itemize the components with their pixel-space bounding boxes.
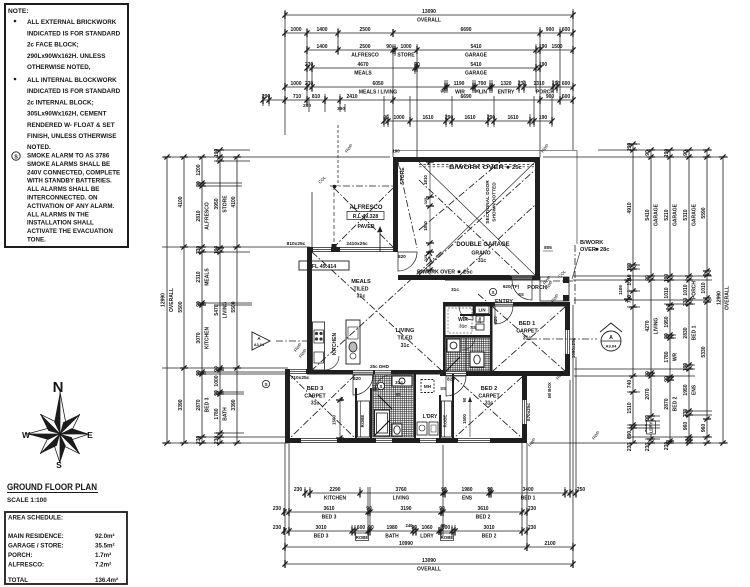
svg-text:2c INTERNAL BLOCK;: 2c INTERNAL BLOCK;	[27, 99, 94, 106]
wall: garage bottom / entry	[398, 275, 510, 280]
svg-text:B/WORK OVER: B/WORK OVER	[449, 165, 505, 171]
door arc: entry front door	[512, 280, 532, 300]
svg-text:MEALS / LIVING: MEALS / LIVING	[359, 90, 397, 96]
svg-text:B/WORK: B/WORK	[580, 240, 603, 246]
svg-text:230: 230	[627, 443, 633, 452]
svg-text:A: A	[609, 335, 613, 341]
wall: garage right (east)	[535, 157, 540, 280]
svg-text:S: S	[491, 290, 494, 295]
svg-text:ALFRESCO:: ALFRESCO:	[8, 562, 44, 569]
svg-text:600: 600	[357, 525, 366, 531]
interior wall: living | wir/ens column	[443, 302, 446, 374]
svg-text:OTHERWISE NOTED,: OTHERWISE NOTED,	[27, 64, 91, 71]
MH access box	[421, 380, 434, 393]
note paragraph 2 bullet	[14, 78, 17, 81]
porch slab	[540, 277, 569, 301]
svg-text:SMOKE ALARM TO AS 3786: SMOKE ALARM TO AS 3786	[27, 153, 110, 160]
right dimension column R5	[706, 150, 708, 443]
svg-text:810x25c: 810x25c	[287, 241, 306, 247]
interior wall: kitchen zone | bed3 bath band with doors	[307, 370, 353, 375]
svg-text:A3.04: A3.04	[606, 344, 617, 349]
svg-text:2410x25c: 2410x25c	[346, 241, 368, 247]
svg-text:90: 90	[683, 150, 689, 156]
alfresco dashed boundary	[333, 186, 335, 247]
right dimension column R2	[650, 150, 652, 443]
svg-text:ALL ALARMS SHALL BE: ALL ALARMS SHALL BE	[27, 186, 99, 193]
svg-text:190: 190	[392, 149, 400, 154]
svg-text:4670: 4670	[357, 62, 368, 68]
svg-text:ROBE: ROBE	[443, 415, 448, 428]
left dimension column L4	[219, 150, 221, 443]
svg-text:BED 2: BED 2	[476, 515, 491, 521]
svg-text:BED 2: BED 2	[672, 396, 678, 411]
svg-text:MEALS: MEALS	[351, 279, 371, 285]
svg-text:1190: 1190	[454, 81, 465, 87]
interior wall: wir | bed1	[490, 306, 493, 371]
svg-text:12990: 12990	[161, 293, 167, 307]
wall: house west lower	[285, 369, 290, 443]
svg-text:90: 90	[196, 301, 202, 307]
svg-text:NOTE:: NOTE:	[8, 8, 29, 15]
diagonals: garage X	[419, 162, 535, 275]
svg-text:31c: 31c	[395, 380, 403, 386]
svg-text:ENTRY: ENTRY	[495, 299, 513, 305]
svg-text:KITCHEN: KITCHEN	[204, 327, 210, 350]
interior wall: robe | bath	[370, 388, 372, 438]
svg-text:820: 820	[398, 254, 406, 259]
svg-text:25c: 25c	[478, 317, 482, 323]
svg-text:PAVED: PAVED	[357, 224, 374, 230]
svg-text:3010: 3010	[483, 525, 494, 531]
door arc: ens	[462, 337, 475, 350]
svg-text:1500: 1500	[462, 414, 467, 424]
svg-text:3760: 3760	[395, 487, 406, 493]
svg-text:25c DHD: 25c DHD	[370, 364, 390, 369]
bottom dimension row B2	[284, 511, 527, 513]
bottom dimension row B5: 13090 OVERALL	[285, 563, 573, 565]
diagonals: bed1	[493, 307, 565, 371]
left block extension lines	[162, 156, 390, 158]
ensuite tiled floor	[446, 338, 490, 371]
bath tiled floor	[373, 375, 414, 437]
svg-text:FINISH, UNLESS OTHERWISE: FINISH, UNLESS OTHERWISE	[27, 133, 116, 140]
left dimension column L2	[183, 157, 185, 443]
smoke alarm symbol	[377, 382, 384, 389]
svg-text:13090: 13090	[422, 558, 436, 564]
svg-text:ROBE: ROBE	[360, 415, 365, 428]
wall: bed1 north / hall south	[443, 302, 495, 307]
diagonals: alfresco	[334, 188, 393, 247]
interior wall: bed3 | robe/bath	[355, 388, 357, 438]
svg-text:1400: 1400	[316, 44, 327, 50]
wall: entry front (porch) with door 920	[445, 276, 512, 281]
svg-text:CARPET: CARPET	[478, 394, 500, 400]
svg-text:4100: 4100	[178, 196, 184, 207]
svg-text:6690: 6690	[460, 94, 471, 100]
door arc: bed2	[446, 376, 466, 396]
door arc: wir	[459, 306, 473, 320]
svg-text:31c: 31c	[478, 258, 487, 264]
svg-text:N: N	[53, 379, 64, 396]
svg-text:90: 90	[487, 487, 493, 493]
svg-text:5330: 5330	[701, 346, 707, 357]
svg-text:90: 90	[339, 396, 344, 401]
svg-text:230: 230	[528, 506, 537, 512]
svg-text:2870: 2870	[196, 399, 202, 410]
svg-text:230: 230	[528, 525, 537, 531]
smoke alarm symbol	[262, 380, 269, 387]
svg-text:SS: SS	[395, 392, 401, 397]
svg-text:31c: 31c	[357, 294, 366, 300]
svg-text:230: 230	[273, 525, 282, 531]
svg-text:1980: 1980	[386, 525, 397, 531]
svg-text:6050: 6050	[372, 81, 383, 87]
svg-text:OVERALL: OVERALL	[417, 18, 441, 24]
svg-text:S: S	[379, 384, 382, 389]
svg-text:690: 690	[627, 431, 633, 440]
svg-text:31c: 31c	[401, 343, 410, 349]
svg-text:2070: 2070	[645, 388, 651, 399]
svg-text:STORE: STORE	[222, 195, 228, 213]
svg-text:INTERCONNECTED. ON: INTERCONNECTED. ON	[27, 195, 98, 202]
svg-text:WIR: WIR	[458, 317, 468, 323]
area schedule box	[5, 512, 127, 584]
svg-text:TILED: TILED	[354, 287, 369, 293]
svg-text:BATH: BATH	[222, 407, 228, 421]
wall: house west upper	[307, 247, 312, 374]
bath fixtures	[375, 410, 390, 436]
svg-text:KITCHEN: KITCHEN	[332, 333, 338, 356]
svg-text:90: 90	[439, 506, 445, 512]
svg-text:1950: 1950	[683, 384, 689, 395]
svg-text:90: 90	[645, 150, 651, 156]
svg-text:OVERALL: OVERALL	[169, 288, 175, 312]
svg-text:90: 90	[368, 525, 374, 531]
bottom dimension row B4	[285, 546, 573, 548]
entry step chevron	[426, 251, 432, 262]
svg-text:SS: SS	[372, 387, 378, 392]
svg-text:BED 1: BED 1	[521, 496, 536, 502]
left dimension column L1: 12990 OVERALL	[166, 157, 168, 443]
svg-text:GRANO: GRANO	[471, 251, 490, 257]
svg-text:25c: 25c	[512, 165, 522, 171]
svg-text:1610: 1610	[422, 115, 433, 121]
svg-text:31c: 31c	[485, 401, 494, 407]
svg-text:230: 230	[645, 443, 651, 452]
svg-text:3070: 3070	[196, 332, 202, 343]
svg-text:3010: 3010	[315, 525, 326, 531]
svg-text:TILED: TILED	[398, 336, 413, 342]
svg-text:E: E	[87, 430, 93, 440]
svg-text:5500: 5500	[178, 301, 184, 312]
svg-text:SCALE 1:100: SCALE 1:100	[7, 497, 47, 504]
svg-text:90: 90	[441, 487, 447, 493]
top dimension row 2	[285, 32, 573, 34]
top dimension row 3	[307, 49, 573, 51]
svg-text:MEALS: MEALS	[204, 268, 210, 286]
svg-text:3190: 3190	[400, 506, 411, 512]
smoke alarm symbol	[489, 288, 496, 295]
svg-text:SS: SS	[470, 325, 476, 330]
wir shelving	[448, 308, 472, 333]
svg-text:230: 230	[273, 506, 282, 512]
bed3 interior dim	[339, 398, 341, 440]
svg-text:230: 230	[683, 409, 689, 418]
svg-text:TOTAL: TOTAL	[8, 577, 28, 584]
svg-text:R.L 49.328: R.L 49.328	[353, 214, 379, 220]
svg-text:INDICATED IS FOR STANDARD: INDICATED IS FOR STANDARD	[27, 30, 121, 37]
eave gutter lines	[393, 150, 577, 152]
svg-text:250: 250	[577, 487, 586, 493]
svg-text:710x25c: 710x25c	[291, 375, 310, 381]
svg-text:WITH STANDBY BATTERIES.: WITH STANDBY BATTERIES.	[27, 178, 112, 185]
eave dash-dot at porch	[540, 280, 575, 282]
svg-text:28c: 28c	[600, 247, 609, 253]
diagonals: store	[398, 162, 417, 248]
svg-text:3610: 3610	[477, 506, 488, 512]
interior wall: robe2 | bed2	[452, 374, 454, 438]
svg-text:190: 190	[683, 363, 689, 372]
svg-text:SS: SS	[542, 301, 548, 306]
svg-text:5410: 5410	[470, 62, 481, 68]
svg-text:CARPET: CARPET	[304, 394, 326, 400]
svg-text:OVERALL: OVERALL	[725, 286, 731, 310]
svg-text:1320: 1320	[500, 81, 511, 87]
svg-text:AREA SCHEDULE:: AREA SCHEDULE:	[8, 515, 63, 522]
svg-text:LDRY: LDRY	[420, 534, 434, 540]
svg-text:740: 740	[627, 380, 633, 389]
svg-text:1060: 1060	[421, 525, 432, 531]
svg-text:1000: 1000	[290, 81, 301, 87]
svg-text:810: 810	[312, 94, 321, 100]
svg-text:BATH: BATH	[385, 534, 399, 540]
svg-text:90: 90	[196, 370, 202, 376]
right dimension column R1	[632, 144, 634, 443]
svg-text:90: 90	[386, 44, 392, 50]
svg-text:2810: 2810	[196, 210, 202, 221]
svg-text:13090: 13090	[422, 9, 436, 15]
wall: bed2 east with window 870	[522, 374, 527, 400]
svg-text:GARAGE: GARAGE	[465, 71, 488, 77]
section line right	[530, 338, 597, 340]
svg-text:25c: 25c	[463, 270, 473, 276]
svg-text:BED 2: BED 2	[482, 534, 497, 540]
svg-text:2830: 2830	[683, 327, 689, 338]
svg-text:7.2m²: 7.2m²	[95, 562, 111, 569]
svg-text:ALL EXTERNAL BRICKWORK: ALL EXTERNAL BRICKWORK	[27, 19, 117, 26]
svg-text:LIVING: LIVING	[653, 318, 659, 335]
svg-text:1500: 1500	[551, 44, 562, 50]
svg-text:600: 600	[562, 81, 571, 87]
garage interior dimension line	[429, 158, 431, 275]
right dimension column R6: 12990 OVERALL	[722, 157, 724, 443]
svg-text:BED 3: BED 3	[307, 386, 323, 392]
ensuite fixtures	[465, 338, 467, 371]
svg-text:1200: 1200	[196, 164, 202, 175]
svg-text:ENS: ENS	[691, 384, 697, 395]
svg-text:5410: 5410	[645, 209, 651, 220]
svg-text:GROUND FLOOR PLAN: GROUND FLOOR PLAN	[7, 481, 97, 492]
wall: garage and store top (north)	[393, 157, 540, 162]
interior wall: bath | ldry	[414, 374, 416, 438]
svg-text:805: 805	[544, 245, 552, 250]
svg-text:230: 230	[294, 487, 303, 493]
svg-text:ACTIVATE THE EVACUATION: ACTIVATE THE EVACUATION	[27, 228, 113, 235]
svg-text:900: 900	[546, 27, 555, 33]
sectional door dotted line at garage top	[419, 164, 535, 166]
bottom dimension row B1	[305, 492, 576, 494]
svg-text:1950: 1950	[664, 316, 670, 327]
laundry fixtures	[417, 422, 427, 435]
compass rose	[60, 414, 80, 434]
svg-text:LIVING: LIVING	[396, 328, 415, 334]
right block extension lines	[543, 156, 728, 158]
svg-text:WR: WR	[672, 352, 678, 361]
svg-text:ENS: ENS	[462, 496, 473, 502]
svg-text:W: W	[22, 430, 31, 440]
robe strips	[358, 401, 370, 437]
svg-text:1780: 1780	[664, 351, 670, 362]
interior wall: lin partition	[473, 306, 475, 316]
svg-text:1850: 1850	[423, 221, 428, 231]
svg-text:1000: 1000	[214, 375, 220, 386]
top dimension row 4	[307, 67, 540, 69]
svg-text:ALFRESCO: ALFRESCO	[351, 53, 379, 59]
svg-text:90: 90	[214, 390, 220, 396]
svg-text:700: 700	[478, 81, 487, 87]
svg-text:BED 3: BED 3	[204, 397, 210, 412]
section line left	[276, 340, 308, 342]
svg-text:1010: 1010	[664, 287, 670, 298]
svg-text:820: 820	[493, 316, 498, 324]
svg-text:290Lx90Wx162H. UNLESS: 290Lx90Wx162H. UNLESS	[27, 53, 105, 60]
kitchen island bench	[346, 320, 360, 364]
svg-text:ALFRESCO: ALFRESCO	[350, 205, 383, 211]
svg-text:3950: 3950	[214, 198, 220, 209]
interior wall: wir | ens	[445, 335, 490, 338]
svg-text:240V CONNECTED, COMPLETE: 240V CONNECTED, COMPLETE	[27, 169, 120, 176]
svg-text:MEALS: MEALS	[354, 71, 372, 77]
svg-text:1810: 1810	[423, 175, 428, 185]
alfresco step arrow	[379, 228, 381, 252]
left dimension column L3	[201, 157, 203, 443]
svg-text:OVER: OVER	[580, 247, 596, 253]
svg-text:5590: 5590	[701, 207, 707, 218]
svg-text:4270: 4270	[645, 320, 651, 331]
svg-text:GARAGE / STORE:: GARAGE / STORE:	[8, 543, 64, 550]
diagonals: bed2	[454, 377, 522, 438]
svg-text:KITCHEN: KITCHEN	[324, 496, 347, 502]
door arc: bath	[375, 375, 391, 391]
door arc: bed1	[495, 306, 513, 324]
svg-text:90: 90	[664, 376, 670, 382]
svg-text:2870: 2870	[664, 398, 670, 409]
svg-text:230: 230	[683, 298, 689, 307]
svg-text:S: S	[14, 154, 18, 160]
svg-text:4100: 4100	[231, 196, 237, 207]
svg-text:10990: 10990	[399, 541, 413, 547]
svg-text:1510: 1510	[627, 402, 633, 413]
section marker A/A3.04 right	[600, 323, 622, 332]
svg-text:1400: 1400	[316, 27, 327, 33]
svg-text:190: 190	[664, 274, 670, 283]
svg-text:BED 3: BED 3	[322, 515, 337, 521]
svg-text:1780: 1780	[214, 408, 220, 419]
svg-text:3610: 3610	[323, 506, 334, 512]
svg-text:GARAGE: GARAGE	[465, 53, 488, 59]
section marker A/A3.04 left	[252, 332, 270, 350]
svg-text:ROBE: ROBE	[356, 535, 369, 540]
svg-text:1105: 1105	[618, 285, 623, 295]
svg-text:31c: 31c	[459, 324, 467, 329]
svg-text:390: 390	[337, 106, 345, 112]
svg-text:ACTIVATION OF ANY ALARM.: ACTIVATION OF ANY ALARM.	[27, 203, 114, 210]
svg-text:NOTED.: NOTED.	[27, 144, 51, 151]
svg-text:2500: 2500	[359, 27, 370, 33]
wall: store left (west)	[393, 157, 398, 252]
svg-text:S: S	[264, 382, 267, 387]
svg-text:325: 325	[423, 197, 428, 204]
svg-text:31c: 31c	[523, 336, 532, 342]
svg-text:BED 1: BED 1	[519, 321, 535, 327]
svg-text:ENTRY: ENTRY	[498, 90, 515, 96]
svg-text:1610: 1610	[464, 115, 475, 121]
svg-text:600: 600	[562, 27, 571, 33]
svg-text:ROBE: ROBE	[441, 535, 454, 540]
svg-text:1.7m²: 1.7m²	[95, 552, 111, 559]
svg-text:S: S	[56, 460, 62, 470]
svg-text:GARAGE: GARAGE	[691, 203, 697, 226]
svg-text:GARAGE: GARAGE	[672, 203, 678, 226]
left dimension column L5	[236, 157, 238, 443]
svg-text:3390: 3390	[178, 399, 184, 410]
svg-text:325: 325	[423, 254, 428, 261]
svg-text:31c: 31c	[451, 287, 459, 293]
interior wall: ldry | robe2	[439, 395, 441, 438]
notes box	[5, 4, 128, 247]
svg-text:305Lx90Wx162H, CEMENT: 305Lx90Wx162H, CEMENT	[27, 111, 107, 118]
svg-text:LDRY: LDRY	[649, 422, 654, 433]
svg-text:5310: 5310	[683, 209, 689, 220]
svg-text:LIN: LIN	[478, 308, 485, 313]
svg-text:L'DRY: L'DRY	[423, 414, 438, 420]
svg-text:CARPET: CARPET	[516, 329, 538, 335]
svg-text:FL 49.414: FL 49.414	[312, 264, 336, 270]
top dimension row 6	[263, 99, 573, 101]
svg-text:90: 90	[366, 506, 372, 512]
wall: meals north wall with windows 810 and 2410	[307, 247, 313, 252]
svg-text:BED 1: BED 1	[691, 325, 697, 340]
svg-text:MAIN RESIDENCE:: MAIN RESIDENCE:	[8, 533, 64, 540]
svg-text:1010: 1010	[701, 282, 707, 293]
svg-text:2290: 2290	[329, 487, 340, 493]
svg-text:MH: MH	[424, 384, 432, 389]
svg-text:600: 600	[562, 94, 571, 100]
svg-text:3390: 3390	[231, 399, 237, 410]
svg-text:1610: 1610	[507, 115, 518, 121]
room label: FL 49.414	[299, 261, 349, 270]
svg-text:4910: 4910	[627, 202, 633, 213]
svg-text:710: 710	[293, 94, 302, 100]
svg-text:2100: 2100	[544, 541, 555, 547]
svg-text:5210: 5210	[664, 209, 670, 220]
svg-text:A3.04: A3.04	[254, 343, 265, 347]
svg-text:ALL INTERNAL BLOCKWORK: ALL INTERNAL BLOCKWORK	[27, 77, 117, 84]
wall: west step at bed3 with window 740	[285, 369, 290, 374]
svg-text:GARAGE: GARAGE	[653, 203, 659, 226]
svg-text:5470: 5470	[214, 304, 220, 315]
svg-text:136.4m²: 136.4m²	[95, 577, 118, 584]
